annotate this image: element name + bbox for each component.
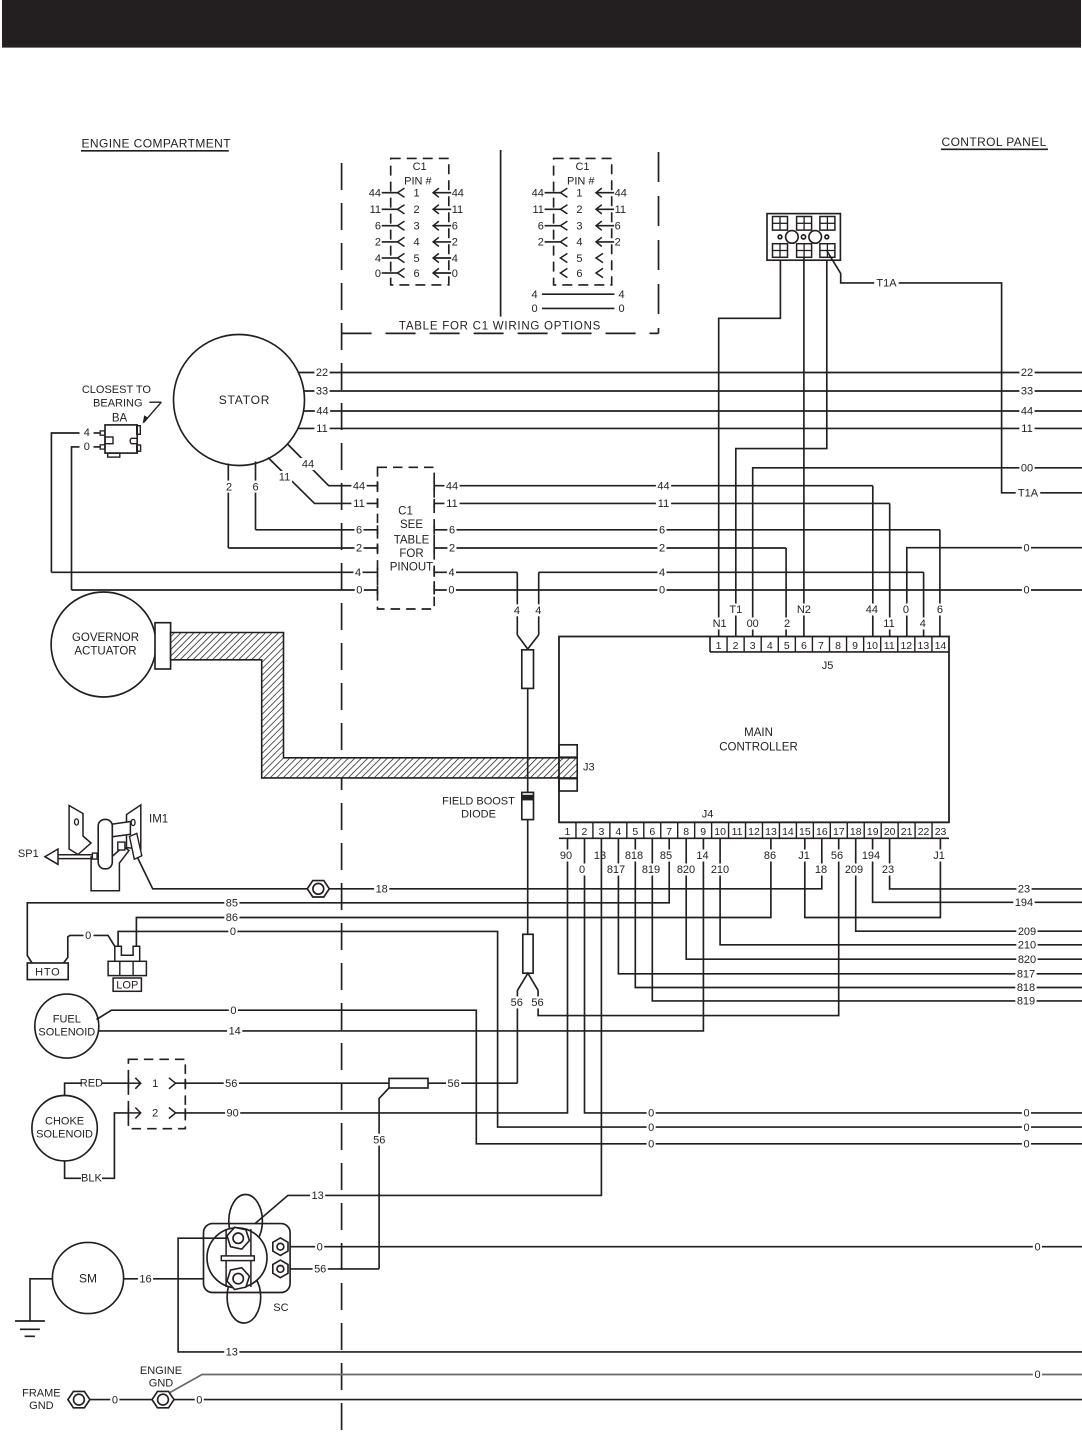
boundary engine/control panel (dashed separator) [341,163,343,1440]
label CLOSEST TO BEARING [82,384,161,424]
svg-text:C1: C1 [575,161,589,173]
svg-text:0: 0 [1034,1369,1040,1381]
wire 818 (J4-5) [635,838,1082,994]
svg-text:11: 11 [883,618,894,630]
svg-text:0: 0 [659,585,665,597]
svg-text:0: 0 [579,864,585,876]
svg-text:20: 20 [884,826,896,838]
svg-text:J3: J3 [583,762,595,774]
connector C1 (see table for pinout) [378,467,435,609]
header bar [2,0,1081,48]
svg-text:PIN #: PIN # [404,175,432,187]
svg-text:56: 56 [373,1134,385,1146]
svg-text:TABLE FOR C1 WIRING OPTION: TABLE FOR C1 WIRING OPTIONS [399,320,601,332]
wire 00 (J5-3 to right edge) [745,462,1082,637]
svg-text:FOR: FOR [399,548,423,560]
wire 23 (J4-20) [890,838,1082,895]
svg-text:0: 0 [448,585,454,597]
svg-text:SOLENOID: SOLENOID [38,1027,95,1039]
svg-text:85: 85 [660,850,672,862]
svg-text:56: 56 [831,850,843,862]
svg-text:0: 0 [452,268,458,280]
svg-text:2: 2 [659,543,665,555]
svg-text:56: 56 [447,1078,459,1090]
svg-text:44: 44 [452,188,464,200]
svg-text:GOVERNOR: GOVERNOR [72,632,139,644]
svg-text:0: 0 [85,930,91,942]
svg-text:194: 194 [1015,897,1033,909]
wire 44 (stator top) [303,405,1082,418]
wire 6 (stator to J5-14) [251,462,945,637]
svg-text:0: 0 [230,1005,236,1017]
svg-text:85: 85 [226,898,238,910]
wire 33 [303,385,1082,398]
svg-text:18: 18 [376,884,388,896]
svg-text:90: 90 [226,1108,238,1120]
svg-text:12: 12 [900,640,912,652]
wire 13 (SC to bottom row) [178,1238,1082,1358]
svg-text:T1A: T1A [1018,488,1039,500]
terminal engine ground [152,1391,174,1407]
svg-text:11: 11 [658,498,669,510]
svg-text:PIN #: PIN # [567,175,595,187]
svg-text:11: 11 [370,204,381,216]
svg-text:13: 13 [918,640,930,652]
svg-text:6: 6 [615,221,621,233]
svg-text:818: 818 [1017,982,1035,994]
svg-text:3: 3 [576,221,582,233]
svg-text:44: 44 [446,480,458,492]
svg-text:4: 4 [452,253,458,265]
svg-text:6: 6 [659,525,665,537]
svg-text:819: 819 [1017,996,1035,1008]
harness (governor to J3, shielded) [171,633,578,778]
svg-text:44: 44 [615,188,627,200]
wire 18 (IM1 to J4-16) [138,838,822,895]
svg-text:2: 2 [615,237,621,249]
svg-text:11: 11 [615,204,626,216]
labels J4 pin wires [558,850,945,877]
svg-text:J1: J1 [798,850,810,862]
svg-text:819: 819 [642,864,660,876]
wire 0 (HTO-LOP link) [64,929,115,963]
svg-text:2: 2 [449,543,455,555]
svg-text:56: 56 [314,1264,326,1276]
svg-text:820: 820 [677,864,695,876]
svg-text:SEE: SEE [400,519,423,531]
wire 819 (J4-6) [652,838,1082,1007]
svg-text:14: 14 [935,640,947,652]
svg-text:7: 7 [818,640,824,652]
svg-text:SOLENOID: SOLENOID [36,1129,93,1141]
svg-text:23: 23 [882,864,894,876]
svg-text:56: 56 [531,997,543,1009]
svg-text:4: 4 [767,640,773,652]
label CONTROL PANEL [941,135,1048,149]
svg-text:3: 3 [413,221,419,233]
wire N1 (J5-1 to T1A) [711,260,780,636]
svg-text:22: 22 [918,826,930,838]
wire BLK (choke to pin 2) [65,1113,129,1185]
svg-text:00: 00 [1021,463,1033,475]
svg-text:2: 2 [538,237,544,249]
wire RED (choke to pin 1) [65,1078,129,1096]
svg-text:86: 86 [226,912,238,924]
svg-text:ACTUATOR: ACTUATOR [74,646,136,658]
connector splice (56-56) [509,838,839,1083]
svg-text:17: 17 [833,826,845,838]
terminal (hex nut on wire 18) [307,881,329,897]
svg-text:N2: N2 [797,604,811,616]
svg-text:2: 2 [576,204,582,216]
svg-text:0: 0 [230,926,236,938]
wire 11 (stator to J5-11) [268,458,897,637]
svg-text:2: 2 [152,1108,158,1120]
svg-text:11: 11 [452,204,463,216]
svg-text:44: 44 [1021,406,1033,418]
svg-text:11: 11 [353,498,364,510]
svg-text:1: 1 [576,188,582,200]
svg-text:4: 4 [355,567,361,579]
svg-text:2: 2 [226,481,232,493]
svg-text:2: 2 [452,237,458,249]
svg-text:16: 16 [139,1274,151,1286]
svg-text:0: 0 [1023,1139,1029,1151]
svg-text:56: 56 [511,997,523,1009]
svg-text:SC: SC [273,1302,288,1314]
svg-text:SM: SM [79,1272,97,1286]
svg-text:90: 90 [560,850,572,862]
svg-text:0: 0 [375,268,381,280]
svg-text:0: 0 [1034,1241,1040,1253]
svg-text:0: 0 [196,1394,202,1406]
svg-text:817: 817 [607,864,625,876]
label ENGINE COMPARTMENT [81,137,231,151]
svg-text:2: 2 [582,826,588,838]
label FRAME GND [22,1388,61,1413]
wire 820 (J4-8) [686,838,1082,966]
connector table C1 option 2 [532,158,627,285]
svg-text:44: 44 [866,604,878,616]
svg-text:T1: T1 [729,604,742,616]
svg-text:23: 23 [935,826,947,838]
svg-text:817: 817 [1017,969,1035,981]
svg-text:N1: N1 [713,618,727,630]
svg-text:GND: GND [149,1378,174,1390]
svg-text:11: 11 [884,640,895,652]
svg-text:11: 11 [532,204,543,216]
wire 86 (LOP to J4-13) [136,838,771,946]
svg-text:3: 3 [750,640,756,652]
svg-text:0: 0 [903,604,909,616]
svg-text:6: 6 [452,221,458,233]
svg-text:0: 0 [1023,1122,1029,1134]
svg-text:0: 0 [356,585,362,597]
svg-text:13: 13 [311,1190,323,1202]
svg-text:14: 14 [229,1026,241,1038]
wire 0 (fuel solenoid to right edge) [97,1004,1082,1150]
svg-text:STATOR: STATOR [219,393,270,407]
svg-text:86: 86 [764,850,776,862]
spark plug SP1 [18,848,92,864]
wire 0 (J5-12 to right edge) [901,542,1082,637]
svg-text:44: 44 [316,406,328,418]
wire 0 (SC to right edge) [290,1241,1082,1254]
svg-text:11: 11 [446,498,457,510]
svg-text:13: 13 [594,850,606,862]
svg-text:12: 12 [748,826,760,838]
svg-text:9: 9 [852,640,858,652]
wire 0 (ground row) [90,1394,1082,1407]
svg-text:6: 6 [937,604,943,616]
svg-text:CONTROL PANEL: CONTROL PANEL [942,135,1047,149]
svg-text:4: 4 [615,826,621,838]
svg-text:6: 6 [576,268,582,280]
label ENGINE GND [140,1365,182,1390]
svg-text:4: 4 [618,289,624,301]
svg-text:4: 4 [375,253,381,265]
svg-text:209: 209 [845,864,863,876]
wire 14 (fuel solenoid to J4-9) [99,838,704,1037]
connector (choke, pins 1-2) [128,1059,185,1128]
svg-text:19: 19 [867,826,879,838]
svg-text:11: 11 [732,826,743,838]
svg-text:IM1: IM1 [149,814,168,826]
svg-text:1: 1 [565,826,571,838]
svg-text:0: 0 [531,303,537,315]
svg-text:194: 194 [862,850,880,862]
starter contactor SC [204,1195,291,1324]
svg-text:8: 8 [835,640,841,652]
svg-text:BEARING: BEARING [93,397,143,409]
svg-text:21: 21 [901,826,913,838]
high temperature switch HTO [27,963,68,980]
svg-text:FUEL: FUEL [53,1014,81,1026]
svg-text:44: 44 [657,480,669,492]
svg-text:11: 11 [1021,423,1032,435]
wire 56 (SC) [290,1263,379,1276]
svg-text:5: 5 [413,253,419,265]
svg-text:C1: C1 [413,161,427,173]
svg-text:00: 00 [747,618,759,630]
svg-text:14: 14 [696,850,708,862]
svg-text:4: 4 [84,427,90,439]
wire 11 (stator top) [298,422,1082,435]
fuel solenoid [35,994,99,1058]
svg-text:3: 3 [598,826,604,838]
stator [174,335,305,466]
wire 56 (choke pin 1 to splice) [176,1077,518,1090]
terminal block BA [100,413,140,458]
svg-text:0: 0 [648,1122,654,1134]
svg-text:13: 13 [226,1347,238,1359]
wire 56 (resistor to SC) [372,1088,389,1269]
wire 817 (J4-4) [618,838,1082,980]
svg-text:1: 1 [152,1078,158,1090]
svg-text:820: 820 [1018,954,1036,966]
resistor (choke 56) [389,1078,428,1088]
svg-text:6: 6 [801,640,807,652]
svg-text:6: 6 [649,826,655,838]
svg-text:13: 13 [765,826,777,838]
svg-text:4: 4 [514,605,520,617]
wire 2 (stator to J5-5) [224,464,791,637]
table boundary (dashed) [342,150,659,333]
wire 210 (J4-10) [720,838,1082,951]
svg-text:22: 22 [1021,367,1033,379]
svg-text:4: 4 [448,567,454,579]
svg-text:6: 6 [252,481,258,493]
main controller (J4/J5 headers) [559,637,949,839]
svg-text:J1: J1 [933,850,945,862]
svg-text:C1: C1 [398,506,413,518]
svg-text:7: 7 [666,826,672,838]
wire 4 (BA) [51,427,100,572]
svg-text:0: 0 [648,1139,654,1151]
wire N2 (J5-6 to T1A) [796,257,813,636]
wire 16 (SM to SC) [124,1273,227,1286]
ground (starter motor) [15,1279,52,1337]
svg-text:PINOUT: PINOUT [390,561,433,573]
svg-text:4: 4 [659,567,665,579]
svg-text:CLOSEST TO: CLOSEST TO [82,384,152,396]
svg-text:5: 5 [784,640,790,652]
svg-text:LOP: LOP [116,980,138,992]
svg-text:44: 44 [369,188,381,200]
svg-text:GND: GND [29,1400,54,1412]
label TABLE FOR C1 WIRING OPTIONS [396,317,604,332]
svg-text:4: 4 [413,237,419,249]
svg-text:6: 6 [356,525,362,537]
svg-text:6: 6 [375,221,381,233]
svg-text:15: 15 [799,826,811,838]
svg-text:BLK: BLK [81,1173,102,1185]
wire 0 (LOP to right edge) [118,925,1082,1133]
svg-text:4: 4 [920,618,926,630]
svg-text:14: 14 [782,826,794,838]
governor actuator [51,592,171,697]
field boost diode [442,792,533,934]
svg-text:ENGINE COMPARTMENT: ENGINE COMPARTMENT [82,137,232,151]
connector table C1 option 1 [369,158,464,285]
svg-text:4: 4 [535,605,541,617]
wire 0 (J4-2 to right edge) [585,838,1082,1119]
connector splice (4-4) [517,635,538,793]
svg-text:CHOKE: CHOKE [45,1116,84,1128]
svg-text:22: 22 [316,367,328,379]
terminal frame ground [68,1391,90,1407]
svg-text:11: 11 [316,423,327,435]
wire 209 (J4-18) [856,838,1082,938]
svg-text:10: 10 [866,640,878,652]
svg-text:1: 1 [413,188,419,200]
svg-text:SP1: SP1 [18,848,39,860]
svg-text:TABLE: TABLE [394,535,430,547]
svg-text:0: 0 [1023,585,1029,597]
svg-text:0: 0 [1023,1108,1029,1120]
svg-text:2: 2 [733,640,739,652]
svg-text:18: 18 [850,826,862,838]
svg-text:44: 44 [302,459,314,471]
wire 85 (HTO to J4-7) [27,838,669,963]
svg-text:0: 0 [618,303,624,315]
svg-text:11: 11 [279,472,290,484]
wire 0 (engine ground to right edge) [170,1369,1082,1393]
wire T1A (to control panel) [827,251,1082,500]
choke solenoid [32,1096,97,1161]
svg-text:RED: RED [80,1078,103,1090]
wire 0 (BA) [72,441,101,590]
svg-text:10: 10 [714,826,726,838]
svg-text:2: 2 [784,618,790,630]
wire 4 (row to J5-13 and splice) [51,566,927,636]
svg-text:5: 5 [576,253,582,265]
svg-text:6: 6 [449,525,455,537]
wire 90 (choke pin 2 to J4-1) [176,838,568,1119]
svg-text:1: 1 [716,640,722,652]
svg-text:FIELD BOOST: FIELD BOOST [442,796,515,808]
wire J1 jumper (J4-15 to J4-23) [805,838,941,917]
wire 0 (row to right edge) [72,584,1082,597]
svg-text:209: 209 [1018,926,1036,938]
svg-text:2: 2 [413,204,419,216]
svg-text:56: 56 [225,1078,237,1090]
svg-text:44: 44 [532,188,544,200]
svg-text:9: 9 [700,826,706,838]
wire 22 [298,367,1082,380]
svg-text:818: 818 [625,850,643,862]
wire 44 (stator to J5-10) [288,445,880,637]
svg-text:ENGINE: ENGINE [140,1365,182,1377]
svg-text:5: 5 [632,826,638,838]
wire T1 (J5-2 to T1A) [727,260,826,636]
svg-text:44: 44 [353,480,365,492]
svg-text:MAIN: MAIN [744,727,773,739]
svg-text:6: 6 [413,268,419,280]
connector J3 [559,745,595,791]
low oil pressure switch LOP [108,946,146,991]
starter motor SM [52,1242,123,1313]
svg-text:J5: J5 [822,660,834,672]
svg-text:J4: J4 [702,809,714,821]
svg-text:DIODE: DIODE [461,809,496,821]
svg-text:6: 6 [538,221,544,233]
svg-text:2: 2 [375,237,381,249]
svg-text:2: 2 [356,543,362,555]
svg-text:23: 23 [1018,884,1030,896]
ignition module IM1 [69,805,168,891]
svg-text:210: 210 [711,864,729,876]
svg-text:HTO: HTO [35,966,60,978]
wire 13 (J4-3 to SC) [239,838,601,1237]
svg-text:CONTROLLER: CONTROLLER [719,742,798,754]
svg-text:18: 18 [815,864,827,876]
svg-text:0: 0 [112,1394,118,1406]
svg-text:8: 8 [683,826,689,838]
svg-text:0: 0 [648,1108,654,1120]
svg-text:33: 33 [316,386,328,398]
svg-text:0: 0 [84,441,90,453]
svg-text:T1A: T1A [876,278,897,290]
svg-text:4: 4 [531,289,537,301]
svg-text:BA: BA [112,413,128,425]
transformer block T1A [767,214,840,261]
svg-text:4: 4 [576,237,582,249]
wire 194 (J4-19) [873,838,1082,909]
svg-text:16: 16 [816,826,828,838]
svg-text:0: 0 [1023,542,1029,554]
svg-text:0: 0 [317,1241,323,1253]
